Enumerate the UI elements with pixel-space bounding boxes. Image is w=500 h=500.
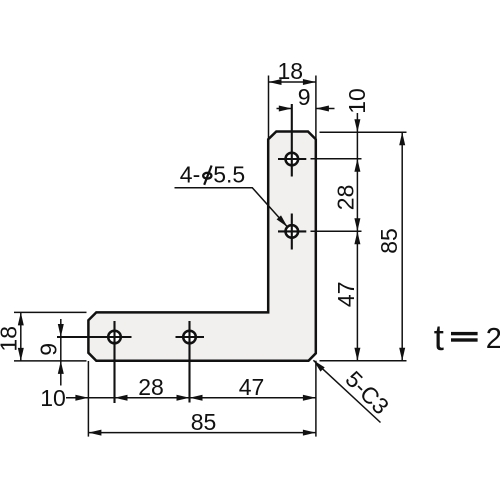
svg-text:18: 18: [278, 58, 304, 84]
svg-text:9: 9: [36, 343, 62, 356]
svg-text:28: 28: [333, 185, 359, 211]
svg-text:10: 10: [344, 88, 370, 114]
svg-text:10: 10: [40, 385, 66, 411]
svg-text:2: 2: [486, 323, 500, 355]
svg-text:28: 28: [138, 374, 164, 400]
svg-text:85: 85: [191, 409, 217, 435]
svg-text:5.5: 5.5: [213, 162, 245, 188]
svg-text:9: 9: [298, 84, 311, 110]
svg-text:t: t: [434, 317, 444, 358]
svg-text:85: 85: [376, 228, 402, 254]
svg-text:47: 47: [333, 282, 359, 308]
svg-text:4-: 4-: [180, 162, 200, 188]
svg-text:18: 18: [0, 326, 21, 352]
svg-text:47: 47: [239, 374, 265, 400]
